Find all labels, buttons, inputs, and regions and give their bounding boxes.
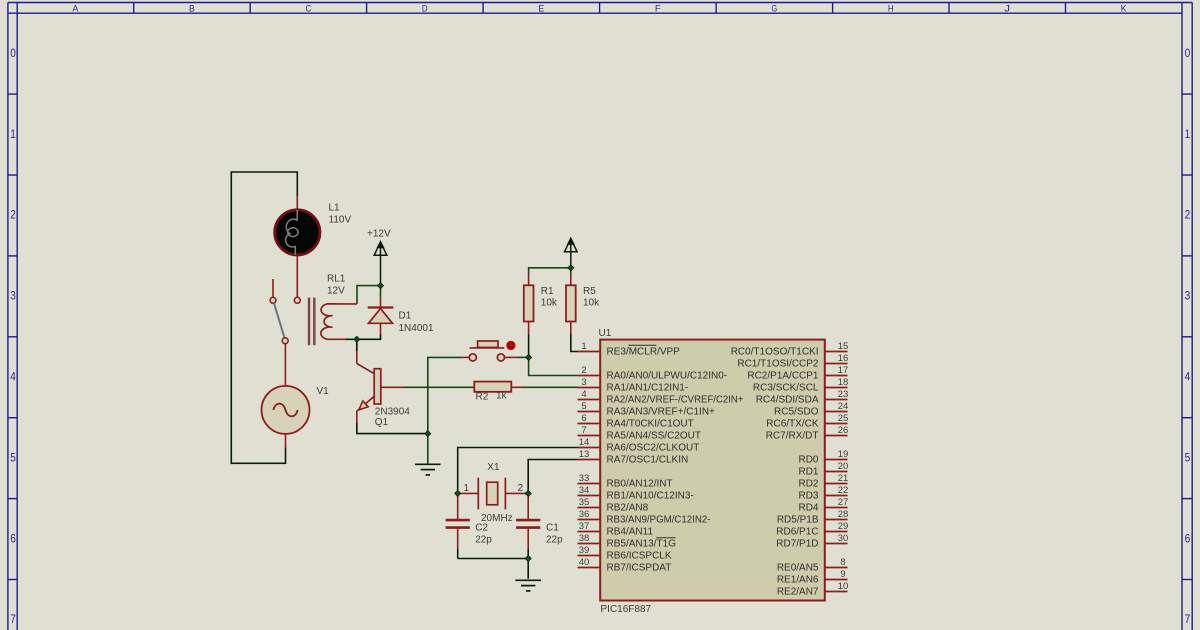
wire: crystal pins bbox=[458, 492, 479, 494]
svg-text:L1: L1 bbox=[329, 203, 341, 214]
svg-text:21: 21 bbox=[838, 473, 849, 484]
svg-text:10k: 10k bbox=[541, 298, 558, 309]
ground (Q1 emitter) bbox=[415, 464, 441, 475]
svg-text:RB6/ICSPCLK: RB6/ICSPCLK bbox=[607, 551, 672, 562]
svg-text:RD3: RD3 bbox=[798, 491, 818, 502]
svg-text:3: 3 bbox=[1185, 291, 1191, 303]
svg-text:8: 8 bbox=[840, 557, 845, 568]
svg-text:7: 7 bbox=[1185, 614, 1191, 626]
svg-text:R2: R2 bbox=[476, 392, 489, 403]
svg-text:4: 4 bbox=[581, 389, 586, 400]
svg-text:RC4/SDI/SDA: RC4/SDI/SDA bbox=[756, 395, 819, 406]
overline MCLR bbox=[628, 344, 656, 346]
switch SW bbox=[270, 297, 300, 343]
svg-text:RE3/MCLR/VPP: RE3/MCLR/VPP bbox=[607, 347, 681, 358]
svg-text:G: G bbox=[771, 3, 777, 14]
svg-text:RC6/TX/CK: RC6/TX/CK bbox=[766, 419, 819, 430]
wire: button right to junction to U1 pin2 bbox=[505, 356, 518, 358]
svg-text:2: 2 bbox=[581, 365, 586, 376]
svg-text:36: 36 bbox=[579, 509, 590, 520]
wire: X1 node1 to U1 pin14 bbox=[458, 448, 578, 494]
svg-text:7: 7 bbox=[10, 614, 16, 626]
svg-text:14: 14 bbox=[579, 437, 590, 448]
svg-text:D1: D1 bbox=[399, 311, 412, 322]
svg-text:RD6/P1C: RD6/P1C bbox=[776, 527, 818, 538]
svg-text:6: 6 bbox=[10, 533, 16, 545]
svg-text:C2: C2 bbox=[475, 523, 488, 534]
wire: emitter net up to button bbox=[428, 357, 462, 433]
U1 right pin numbers bbox=[838, 341, 849, 592]
svg-text:9: 9 bbox=[840, 569, 845, 580]
svg-text:RD5/P1B: RD5/P1B bbox=[777, 515, 819, 526]
wire: lamp-V1 loop bbox=[231, 172, 297, 463]
svg-text:RB7/ICSPDAT: RB7/ICSPDAT bbox=[607, 563, 672, 574]
svg-text:4: 4 bbox=[1185, 372, 1191, 384]
svg-text:30: 30 bbox=[838, 533, 849, 544]
junction dot node1 bbox=[455, 490, 461, 496]
svg-text:0: 0 bbox=[10, 48, 16, 60]
svg-text:3: 3 bbox=[581, 377, 586, 388]
svg-text:RA4/T0CKI/C1OUT: RA4/T0CKI/C1OUT bbox=[607, 419, 694, 430]
svg-text:1: 1 bbox=[464, 483, 470, 494]
transistor Q1 2N3904 bbox=[357, 364, 381, 411]
svg-text:RE1/AN6: RE1/AN6 bbox=[777, 575, 819, 586]
svg-text:X1: X1 bbox=[487, 462, 500, 473]
wire: switch pole to V1 bbox=[284, 344, 286, 386]
wire: R1 bottom to junction bbox=[528, 322, 530, 335]
svg-text:23: 23 bbox=[838, 389, 849, 400]
svg-text:39: 39 bbox=[579, 545, 590, 556]
svg-text:1: 1 bbox=[581, 341, 586, 352]
svg-text:RC1/T1OSI/CCP2: RC1/T1OSI/CCP2 bbox=[737, 359, 819, 370]
svg-text:37: 37 bbox=[579, 521, 590, 532]
svg-text:15: 15 bbox=[838, 341, 849, 352]
svg-text:RC0/T1OSO/T1CKI: RC0/T1OSO/T1CKI bbox=[731, 347, 819, 358]
junction dot button/R1 bbox=[526, 354, 532, 360]
svg-text:RA0/AN0/ULPWU/C12IN0-: RA0/AN0/ULPWU/C12IN0- bbox=[607, 371, 728, 382]
svg-text:RD4: RD4 bbox=[798, 503, 818, 514]
overline T1G bbox=[656, 537, 675, 539]
wire: coil bottom / D1 bottom bbox=[337, 338, 347, 340]
svg-text:PIC16F887: PIC16F887 bbox=[601, 604, 652, 615]
svg-text:RC3/SCK/SCL: RC3/SCK/SCL bbox=[753, 383, 819, 394]
crystal X1 bbox=[478, 478, 505, 510]
button actuator dot bbox=[506, 341, 515, 350]
svg-text:RA7/OSC1/CLKIN: RA7/OSC1/CLKIN bbox=[607, 455, 689, 466]
svg-text:D: D bbox=[422, 3, 428, 14]
wire: R5 bottom to U1 pin1 bbox=[570, 322, 572, 335]
svg-text:110V: 110V bbox=[329, 215, 352, 226]
svg-text:4: 4 bbox=[10, 372, 16, 384]
svg-text:A: A bbox=[73, 3, 79, 14]
svg-text:20: 20 bbox=[838, 461, 849, 472]
svg-text:28: 28 bbox=[838, 509, 849, 520]
svg-text:RB1/AN10/C12IN3-: RB1/AN10/C12IN3- bbox=[607, 491, 694, 502]
svg-text:RD2: RD2 bbox=[798, 479, 818, 490]
svg-text:E: E bbox=[538, 3, 544, 14]
svg-text:12V: 12V bbox=[327, 286, 345, 297]
svg-text:2: 2 bbox=[1185, 210, 1191, 222]
svg-text:RD7/P1D: RD7/P1D bbox=[776, 539, 818, 550]
svg-text:F: F bbox=[655, 3, 661, 14]
U1 right pin stubs bbox=[825, 352, 848, 592]
svg-text:RB3/AN9/PGM/C12IN2-: RB3/AN9/PGM/C12IN2- bbox=[607, 515, 711, 526]
svg-text:27: 27 bbox=[838, 497, 849, 508]
svg-text:R1: R1 bbox=[541, 286, 554, 297]
svg-text:10: 10 bbox=[838, 581, 849, 592]
svg-text:35: 35 bbox=[579, 497, 590, 508]
svg-text:RC2/P1A/CCP1: RC2/P1A/CCP1 bbox=[747, 371, 819, 382]
svg-text:C1: C1 bbox=[546, 523, 559, 534]
svg-text:33: 33 bbox=[579, 473, 590, 484]
svg-text:R5: R5 bbox=[583, 286, 596, 297]
svg-text:RD1: RD1 bbox=[798, 467, 818, 478]
junction dot cap ground bbox=[525, 555, 531, 561]
svg-text:RL1: RL1 bbox=[327, 274, 346, 285]
svg-text:RA5/AN4/SS/C2OUT: RA5/AN4/SS/C2OUT bbox=[607, 431, 701, 442]
push button bbox=[469, 341, 504, 361]
power +12V symbol (relay) bbox=[374, 242, 387, 286]
svg-text:RC5/SDO: RC5/SDO bbox=[774, 407, 819, 418]
svg-text:Q1: Q1 bbox=[375, 417, 389, 428]
wire: C1 stems bbox=[527, 493, 529, 519]
wire: +12V to relay coil elbow bbox=[357, 286, 381, 304]
svg-text:RE2/AN7: RE2/AN7 bbox=[777, 587, 819, 598]
svg-text:1: 1 bbox=[10, 129, 16, 141]
svg-text:34: 34 bbox=[579, 485, 590, 496]
wire: X1 node2 to U1 pin13 bbox=[528, 460, 577, 494]
wire: V1 bottom pin bbox=[285, 434, 287, 448]
svg-text:J: J bbox=[1004, 3, 1010, 14]
wire: lamp bottom pin to switch bbox=[296, 256, 298, 298]
svg-text:K: K bbox=[1121, 3, 1127, 14]
svg-text:RE0/AN5: RE0/AN5 bbox=[777, 563, 819, 574]
svg-text:7: 7 bbox=[581, 425, 586, 436]
power +12V symbol (R1/R5) bbox=[565, 239, 578, 268]
svg-text:3: 3 bbox=[10, 291, 16, 303]
junction dot relay/D1 bbox=[354, 336, 360, 342]
svg-text:40: 40 bbox=[579, 557, 590, 568]
U1 left pin numbers bbox=[579, 341, 590, 568]
svg-text:RD0: RD0 bbox=[798, 455, 818, 466]
wire: Q1 emitter net to ground bbox=[357, 423, 428, 434]
svg-text:RA3/AN3/VREF+/C1IN+: RA3/AN3/VREF+/C1IN+ bbox=[607, 407, 716, 418]
svg-text:RB2/AN8: RB2/AN8 bbox=[607, 503, 649, 514]
U1 left pin names bbox=[607, 347, 744, 574]
U1 right pin names bbox=[731, 347, 819, 598]
wire: cap bottoms to ground2 bbox=[458, 559, 529, 579]
svg-text:22: 22 bbox=[838, 485, 849, 496]
junction dot node2 bbox=[525, 490, 531, 496]
svg-text:22p: 22p bbox=[546, 535, 563, 546]
svg-text:22p: 22p bbox=[475, 535, 492, 546]
resistor R5 bbox=[566, 285, 576, 321]
wire: switch top stub bbox=[272, 279, 274, 297]
svg-text:19: 19 bbox=[838, 449, 849, 460]
svg-text:RC7/RX/DT: RC7/RX/DT bbox=[766, 431, 819, 442]
ground (crystal caps) bbox=[515, 580, 541, 591]
junction dot +12V/R5 bbox=[568, 265, 574, 271]
svg-text:1N4001: 1N4001 bbox=[399, 323, 434, 334]
svg-text:5: 5 bbox=[1185, 452, 1191, 464]
svg-text:2: 2 bbox=[518, 483, 524, 494]
AC source V1 bbox=[262, 386, 310, 434]
svg-text:RB0/AN12/INT: RB0/AN12/INT bbox=[607, 479, 673, 490]
wire: lamp top pin bbox=[296, 196, 298, 209]
svg-text:38: 38 bbox=[579, 533, 590, 544]
svg-text:1: 1 bbox=[1185, 129, 1191, 141]
capacitor C1 bbox=[516, 520, 540, 528]
wire: relay coil top bbox=[337, 303, 358, 305]
wire: +12V down to D1 bbox=[380, 286, 382, 298]
svg-text:1k: 1k bbox=[496, 391, 508, 402]
lamp L1 bbox=[275, 210, 320, 255]
svg-text:10k: 10k bbox=[583, 298, 600, 309]
wire: junction to Q1 collector bbox=[356, 339, 358, 351]
junction dot +12V/D1 bbox=[377, 283, 383, 289]
svg-text:C: C bbox=[306, 3, 312, 14]
svg-text:24: 24 bbox=[838, 401, 849, 412]
svg-text:2N3904: 2N3904 bbox=[375, 407, 410, 418]
svg-text:U1: U1 bbox=[599, 328, 612, 339]
resistor R2 bbox=[474, 382, 511, 392]
IC U1 PIC16F887 body bbox=[600, 340, 825, 601]
capacitor C2 bbox=[446, 520, 470, 528]
svg-text:RB4/AN11: RB4/AN11 bbox=[607, 527, 654, 538]
resistor R1 bbox=[524, 285, 534, 321]
svg-text:26: 26 bbox=[838, 425, 849, 436]
svg-text:16: 16 bbox=[838, 353, 849, 364]
relay RL1 bbox=[309, 298, 337, 346]
svg-text:+12V: +12V bbox=[367, 229, 391, 240]
svg-text:29: 29 bbox=[838, 521, 849, 532]
wire: +12V rail to R1/R5 bbox=[529, 268, 571, 274]
svg-text:18: 18 bbox=[838, 377, 849, 388]
svg-text:5: 5 bbox=[581, 401, 586, 412]
svg-text:H: H bbox=[888, 3, 894, 14]
U1 left pin stubs bbox=[578, 352, 601, 568]
svg-text:B: B bbox=[189, 3, 195, 14]
svg-text:25: 25 bbox=[838, 413, 849, 424]
diode D1 bbox=[368, 308, 394, 324]
wire: C2 stems bbox=[457, 493, 459, 519]
junction dot emitter/ground bbox=[425, 431, 431, 437]
wire: ground stem bbox=[427, 434, 429, 464]
svg-text:13: 13 bbox=[579, 449, 590, 460]
svg-text:RA1/AN1/C12IN1-: RA1/AN1/C12IN1- bbox=[607, 383, 689, 394]
svg-text:17: 17 bbox=[838, 365, 849, 376]
svg-text:0: 0 bbox=[1185, 48, 1191, 60]
svg-text:RA2/AN2/VREF-/CVREF/C2IN+: RA2/AN2/VREF-/CVREF/C2IN+ bbox=[607, 395, 744, 406]
svg-text:V1: V1 bbox=[317, 386, 330, 397]
svg-text:6: 6 bbox=[581, 413, 586, 424]
svg-text:RB5/AN13/T1G: RB5/AN13/T1G bbox=[607, 539, 677, 550]
svg-text:5: 5 bbox=[10, 452, 16, 464]
wire: Q1 base to R2 to U1 pin3 bbox=[381, 386, 405, 388]
svg-text:RA6/OSC2/CLKOUT: RA6/OSC2/CLKOUT bbox=[607, 443, 700, 454]
svg-text:6: 6 bbox=[1185, 533, 1191, 545]
svg-text:2: 2 bbox=[10, 210, 16, 222]
